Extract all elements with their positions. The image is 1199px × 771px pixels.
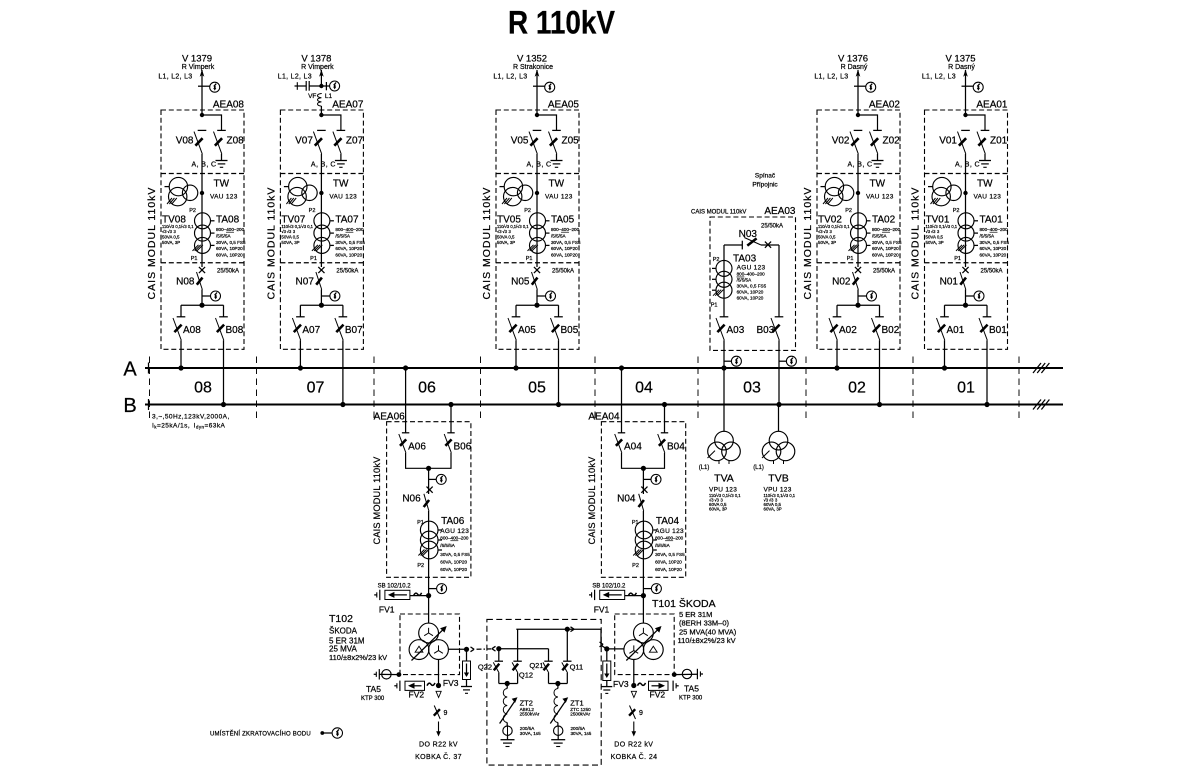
wire Z05 to ground <box>556 154 558 160</box>
wire Q22 to ZT2 bar <box>498 673 500 684</box>
svg-text:N06: N06 <box>402 494 421 505</box>
bus disconnector B03 <box>775 316 784 318</box>
svg-text:30VA, 0,5 FS5: 30VA, 0,5 FS5 <box>440 552 470 557</box>
svg-text:R Vimperk: R Vimperk <box>182 64 215 71</box>
svg-text:N07: N07 <box>296 277 315 288</box>
svg-text:T102: T102 <box>329 613 353 625</box>
short-circuit point tick bay 02 <box>854 85 866 87</box>
bus disconnector B04 <box>661 432 668 434</box>
transformer module AEA06 enclosure <box>387 422 471 578</box>
bus disconnector A08 <box>177 316 186 318</box>
wire branch to Z02 <box>858 115 878 130</box>
power transformer T101 <box>634 623 654 643</box>
svg-text:VAU 123: VAU 123 <box>545 194 573 201</box>
wire bus B to B04 <box>664 405 666 433</box>
svg-text:SB 102/10.2: SB 102/10.2 <box>378 584 412 590</box>
wire ZT1 bar <box>549 683 568 685</box>
svg-text:P2: P2 <box>524 208 531 214</box>
plug arrow T102 neutral <box>471 647 475 649</box>
short-circuit point tick bay 01 <box>962 85 974 87</box>
svg-text:50VA, 3P: 50VA, 3P <box>818 240 836 245</box>
svg-text:√3 √3 3: √3 √3 3 <box>497 229 512 234</box>
svg-text:VF: VF <box>308 93 316 100</box>
node FV1 junction bay 04 <box>641 593 646 598</box>
node VT tap bay 07 <box>319 191 323 195</box>
disconnector N02 <box>853 272 859 290</box>
arc suppression cabinet enclosure <box>487 619 601 765</box>
wire FV1 to riser bay 04 <box>625 595 644 597</box>
svg-text:L1, L2, L3: L1, L2, L3 <box>814 74 848 81</box>
svg-text:25 MVA: 25 MVA <box>329 644 358 653</box>
svg-text:B: B <box>123 395 136 417</box>
node A02 on bus A <box>834 365 839 370</box>
svg-text:R Dasný: R Dasný <box>841 64 868 71</box>
node T101 neutral <box>604 646 609 651</box>
node VT tap bay 08 <box>200 191 204 195</box>
node B02 on bus B <box>877 402 882 407</box>
module section separator bay 05 upper <box>496 173 579 175</box>
svg-text:60VA, 10P20: 60VA, 10P20 <box>216 246 243 251</box>
wire Q21 stub <box>548 649 550 662</box>
wire N01 to node bay 01 <box>965 290 967 306</box>
svg-text:A05: A05 <box>518 325 536 336</box>
node B03 on bus B <box>776 402 781 407</box>
disconnector N01 <box>960 272 966 290</box>
node bus selection bay 02 <box>855 303 860 308</box>
svg-text:TW: TW <box>333 179 349 190</box>
short-circuit point tick B03 <box>779 360 787 362</box>
node top junction bay 08 <box>200 113 204 117</box>
module section separator bay 05 lower <box>496 262 579 264</box>
svg-text:TVB: TVB <box>768 473 788 485</box>
svg-text:Z01: Z01 <box>990 136 1008 147</box>
short-circuit point symbol bay 02 <box>866 82 876 92</box>
voltage transformer TVA <box>715 431 734 450</box>
wire bus selection bar bay 02 <box>837 304 880 306</box>
wire A05 to bus A <box>515 340 517 368</box>
svg-text:V01: V01 <box>939 136 957 147</box>
short-circuit point tick lower bay 08 <box>202 295 211 297</box>
VF line terminal <box>296 82 298 90</box>
svg-text:25/50kA: 25/50kA <box>761 224 783 230</box>
svg-text:KTP 300: KTP 300 <box>361 696 385 702</box>
legend wire <box>322 732 332 734</box>
svg-text:B07: B07 <box>345 325 363 336</box>
TA5 capacitive terminal T102 <box>378 669 380 679</box>
svg-text:R 110kV: R 110kV <box>508 5 615 41</box>
svg-text:A08: A08 <box>183 325 201 336</box>
svg-text:FV3: FV3 <box>613 679 629 689</box>
svg-text:2500kVAr: 2500kVAr <box>570 711 590 716</box>
svg-text:A: A <box>123 359 137 381</box>
bus disconnector B02 <box>875 316 884 318</box>
svg-text:Z07: Z07 <box>346 136 364 147</box>
svg-text:TA5: TA5 <box>366 684 381 694</box>
short-circuit rating point bay 02 <box>855 267 861 273</box>
wire ZT neutral bus mid <box>499 648 549 650</box>
svg-text:DO R22 kV: DO R22 kV <box>614 742 653 749</box>
wire feeder bay 02 <box>857 70 859 115</box>
wire A08 to bus A <box>180 340 182 368</box>
node bus selection bay 08 <box>199 303 204 308</box>
svg-text:Z08: Z08 <box>227 136 245 147</box>
svg-text:TA07: TA07 <box>335 215 359 226</box>
svg-text:9: 9 <box>444 710 448 717</box>
short-circuit point symbol lower bay 05 <box>546 291 556 301</box>
svg-text:(L1): (L1) <box>753 465 764 471</box>
svg-text:ŠKODA: ŠKODA <box>329 627 358 636</box>
disconnector V08 <box>198 129 207 131</box>
svg-text:50VA 0,5: 50VA 0,5 <box>281 235 299 240</box>
svg-text:L1, L2, L3: L1, L2, L3 <box>922 74 956 81</box>
wire to A07 <box>299 305 301 317</box>
node B07 on bus B <box>340 402 345 407</box>
svg-text:60VA, 10P20: 60VA, 10P20 <box>335 246 362 251</box>
disconnector V07 <box>317 129 326 131</box>
svg-text:Q11: Q11 <box>570 662 584 671</box>
svg-text:60VA, 10P20: 60VA, 10P20 <box>872 246 899 251</box>
svg-text:P1: P1 <box>310 256 317 262</box>
transformer module AEA04 enclosure <box>601 422 685 578</box>
svg-text:B02: B02 <box>882 325 900 336</box>
svg-text:R Strakonice: R Strakonice <box>513 64 553 71</box>
svg-text:FV2: FV2 <box>409 690 425 700</box>
switch Q22 <box>495 660 503 662</box>
wire coupler right <box>761 244 779 246</box>
short-circuit point symbol FV level bay 04 <box>651 584 661 594</box>
wire main V08 to N08 <box>201 154 203 267</box>
svg-text:KTP 300: KTP 300 <box>679 695 703 701</box>
short-circuit point tick bay 08 <box>198 85 210 87</box>
svg-text:VAU 123: VAU 123 <box>974 194 1002 201</box>
feeder arrow bay 07 <box>319 70 324 77</box>
svg-text:60VA, 10P20: 60VA, 10P20 <box>551 246 578 251</box>
svg-text:TW: TW <box>870 179 886 190</box>
svg-text:800–400–200: 800–400–200 <box>737 272 766 277</box>
wire junction to N06 <box>428 468 430 494</box>
wire B08 to bus B <box>223 340 225 404</box>
wire B06 to junction <box>429 453 451 469</box>
wire Q12 stub <box>517 629 519 661</box>
cable head T101 <box>631 691 636 697</box>
switch Q11 <box>563 660 571 662</box>
line trap coil L1 <box>318 94 322 107</box>
short-circuit point tick bay 06 <box>429 478 436 480</box>
wire bus selection bar bay 01 <box>945 304 988 306</box>
svg-text:04: 04 <box>635 380 653 397</box>
feeder arrow bay 02 <box>856 70 861 77</box>
neutral CT ZT2 <box>503 726 512 735</box>
node top junction bay 07 <box>319 113 323 117</box>
svg-text:CAIS MODUL 110kV: CAIS MODUL 110kV <box>372 456 382 545</box>
feeder arrow bay 08 <box>200 70 205 77</box>
wire feeder bay 01 <box>965 70 967 115</box>
wire main V05 to N05 <box>536 154 538 267</box>
svg-text:A06: A06 <box>408 442 426 453</box>
node ZT mid <box>496 646 501 651</box>
wire ZT2 bar <box>499 683 518 685</box>
svg-text:800–400–200: 800–400–200 <box>872 227 901 232</box>
svg-text:60VA, 10P20: 60VA, 10P20 <box>335 252 362 257</box>
disconnector 9 T102 <box>434 706 440 720</box>
node junction bay 06 <box>426 466 431 471</box>
short-circuit point tick A03 <box>724 360 732 362</box>
svg-text:A, B, C: A, B, C <box>848 162 873 169</box>
svg-text:B06: B06 <box>454 442 472 453</box>
svg-text:SB 102/10.2: SB 102/10.2 <box>592 584 626 590</box>
wire bus A to A06 <box>405 368 407 433</box>
current transformer TA07 <box>314 213 330 229</box>
node T101 LV <box>631 683 636 688</box>
wire B02 to bus B <box>879 340 881 404</box>
svg-text:A01: A01 <box>947 325 965 336</box>
node A01 on bus A <box>942 365 947 370</box>
wire ZT neutral bus top <box>516 628 601 630</box>
disconnector N05 <box>532 272 538 290</box>
node B01 on bus B <box>984 402 989 407</box>
wire to B02 <box>879 305 881 317</box>
svg-text:Z05: Z05 <box>562 136 580 147</box>
surge arrester FV2 T102 <box>405 681 425 690</box>
svg-text:/5/5/5A: /5/5/5A <box>551 234 566 239</box>
svg-text:AGU 123: AGU 123 <box>440 528 469 535</box>
svg-text:800–400–200: 800–400–200 <box>335 227 364 232</box>
svg-text:L1, L2, L3: L1, L2, L3 <box>158 74 192 81</box>
svg-text:R Vimperk: R Vimperk <box>301 64 334 71</box>
svg-text:TW: TW <box>549 179 565 190</box>
voltage transformer TVB <box>769 431 788 450</box>
wire FV1 to riser bay 06 <box>410 595 429 597</box>
svg-text:60VA, 10P20: 60VA, 10P20 <box>440 567 467 572</box>
wire TA5 T102 <box>380 673 401 675</box>
switch Q21 <box>544 660 552 662</box>
short-circuit rating point bay 05 <box>534 267 540 273</box>
svg-text:V05: V05 <box>511 136 529 147</box>
svg-text:03: 03 <box>743 380 761 397</box>
ground Z05 <box>551 160 563 162</box>
module section separator bay 07 lower <box>280 262 363 264</box>
wire junction to N04 <box>642 468 644 494</box>
svg-text:N08: N08 <box>176 277 195 288</box>
bus disconnector A04 <box>618 432 625 434</box>
ground Z01 <box>979 160 991 162</box>
short-circuit point symbol A03 <box>731 356 741 366</box>
node FV1 junction bay 06 <box>426 593 431 598</box>
wire riser A03 side <box>723 245 725 317</box>
node A06 on bus A <box>403 365 408 370</box>
TA5 capacitive terminal T101 <box>696 669 698 679</box>
bus disconnector B07 <box>339 316 348 318</box>
svg-text:CAIS MODUL 110kV: CAIS MODUL 110kV <box>691 209 746 215</box>
neutral CT ZT1 <box>554 726 563 735</box>
short-circuit point tick bay 04 <box>643 478 650 480</box>
bus disconnector A03 <box>720 316 729 318</box>
short-circuit rating point bay 03 <box>765 242 771 248</box>
wire branch to Z01 <box>966 115 986 130</box>
FV1 capacitive terminal bay 04 <box>594 590 596 600</box>
svg-text:800–400–200: 800–400–200 <box>440 536 469 541</box>
surge arrester FV1 bay 04 <box>600 590 625 599</box>
wire VF branch bay 07 <box>309 85 321 87</box>
node A08 on bus A <box>178 365 183 370</box>
svg-text:V07: V07 <box>295 136 313 147</box>
svg-text:P2: P2 <box>417 563 424 569</box>
svg-text:/5/5/5A: /5/5/5A <box>980 234 995 239</box>
svg-text:Přípojnic: Přípojnic <box>752 182 778 189</box>
svg-text:A, B, C: A, B, C <box>311 162 336 169</box>
wire main V01 to N01 <box>965 154 967 267</box>
svg-text:P1: P1 <box>526 256 533 262</box>
short-circuit point symbol bay 08 <box>210 82 220 92</box>
disconnector V05 <box>533 129 542 131</box>
node top junction bay 02 <box>856 113 860 117</box>
arc suppression coil ZT1 <box>554 689 558 723</box>
svg-text:/5/5/5A: /5/5/5A <box>216 234 231 239</box>
wire module to transformer bay 04 <box>642 577 644 623</box>
module section separator bay 07 upper <box>280 173 363 175</box>
wire to A05 <box>515 305 517 317</box>
bus disconnector B08 <box>219 316 228 318</box>
wire branch to Z05 <box>537 115 557 130</box>
svg-text:800–400–200: 800–400–200 <box>551 227 580 232</box>
svg-text:/5/5/5A: /5/5/5A <box>335 234 350 239</box>
wire TA5 T101 <box>674 673 697 675</box>
svg-text:/5/5/5A: /5/5/5A <box>440 543 455 548</box>
svg-text:50VA 0,5: 50VA 0,5 <box>926 235 944 240</box>
wire ZT2 to CT <box>506 723 508 727</box>
node ZT2 <box>505 681 510 686</box>
svg-text:√3 √3 3: √3 √3 3 <box>281 229 296 234</box>
svg-text:AEA04: AEA04 <box>588 412 620 423</box>
svg-text:√3 √3 3: √3 √3 3 <box>818 229 833 234</box>
wire Q12 to ZT2 bar <box>517 673 519 684</box>
wire VF branch left <box>297 85 306 87</box>
svg-text:30VA, 0,5 FS5: 30VA, 0,5 FS5 <box>737 284 767 289</box>
wire to B07 <box>342 305 344 317</box>
svg-text:CAIS MODUL 110kV: CAIS MODUL 110kV <box>802 187 814 300</box>
svg-text:R Dasný: R Dasný <box>948 64 975 71</box>
svg-text:AEA05: AEA05 <box>548 100 580 111</box>
short-circuit point tick lower bay 02 <box>858 295 867 297</box>
svg-text:FV1: FV1 <box>594 605 610 615</box>
svg-text:50VA 0,5: 50VA 0,5 <box>162 235 180 240</box>
node TA5 T102 <box>397 672 402 677</box>
wire bus B to B06 <box>450 405 452 433</box>
wire coil to module bay 07 <box>320 106 322 115</box>
short-circuit point tick lower bay 01 <box>966 295 975 297</box>
wire module to transformer bay 06 <box>428 577 430 623</box>
svg-text:TA02: TA02 <box>872 215 896 226</box>
flexible link FV1 bay 06 <box>414 593 422 596</box>
svg-text:800–400–200: 800–400–200 <box>216 227 245 232</box>
voltage transformer TV01 (TW VAU 123) <box>933 177 951 195</box>
wire B04 to junction <box>643 453 664 469</box>
svg-text:Q12: Q12 <box>519 671 533 680</box>
bus disconnector A07 <box>296 316 305 318</box>
earthing switch Z01 <box>981 129 990 131</box>
svg-text:02: 02 <box>848 380 866 397</box>
coupler module AEA03 enclosure <box>710 217 796 350</box>
svg-text:60VA, 10P20: 60VA, 10P20 <box>216 252 243 257</box>
short-circuit point symbol bay 06 <box>436 474 446 484</box>
disconnector V01 <box>961 129 970 131</box>
svg-text:50VA, 3P: 50VA, 3P <box>281 240 299 245</box>
module section separator bay 02 lower <box>817 262 900 264</box>
FV1 capacitive terminal bay 06 <box>379 590 381 600</box>
svg-text:VAU 123: VAU 123 <box>210 194 238 201</box>
svg-text:P1: P1 <box>191 256 198 262</box>
wire bus to TVA <box>723 368 725 431</box>
svg-text:T101 ŠKODA: T101 ŠKODA <box>652 597 716 610</box>
wire B03 to bus B <box>778 340 780 404</box>
CAIS module AEA07 enclosure <box>280 110 363 349</box>
current transformer TA04 <box>635 521 653 539</box>
node A07 on bus A <box>298 365 303 370</box>
wire to B05 <box>558 305 560 317</box>
wire to B01 <box>986 305 988 317</box>
svg-text:TA04: TA04 <box>656 516 680 527</box>
svg-text:06: 06 <box>418 380 436 397</box>
svg-text:30VA, 0,5 FS5: 30VA, 0,5 FS5 <box>551 240 581 245</box>
wire main V07 to N07 <box>320 154 322 267</box>
busbar B end hatch <box>1033 400 1041 410</box>
plug arrow ZT top <box>571 627 575 629</box>
flexible link FV1 bay 04 <box>628 593 636 596</box>
svg-text:25/50kA: 25/50kA <box>336 269 358 275</box>
svg-text:N05: N05 <box>511 277 530 288</box>
legend node <box>320 731 324 735</box>
svg-text:B08: B08 <box>226 325 244 336</box>
node top junction bay 01 <box>963 113 967 117</box>
busbar A <box>145 367 1063 369</box>
svg-text:KOBKA Č. 37: KOBKA Č. 37 <box>415 752 462 761</box>
voltage transformer TV05 (TW VAU 123) <box>504 177 522 195</box>
bus disconnector B01 <box>983 316 992 318</box>
svg-text:05: 05 <box>528 380 546 397</box>
svg-text:CAIS MODUL 110kV: CAIS MODUL 110kV <box>146 187 158 300</box>
svg-text:60VA, 10P20: 60VA, 10P20 <box>980 246 1007 251</box>
svg-text:AEA01: AEA01 <box>976 100 1008 111</box>
node A05 on bus A <box>513 365 518 370</box>
wire Q21 to ZT1 bar <box>548 673 550 684</box>
transformer T101 enclosure <box>615 614 675 675</box>
disconnector 9 T101 <box>630 706 636 720</box>
svg-text:A, B, C: A, B, C <box>192 162 217 169</box>
svg-text:V08: V08 <box>176 136 194 147</box>
svg-text:√3 √3 3: √3 √3 3 <box>926 229 941 234</box>
wire FV3 to ground T101 <box>606 681 608 687</box>
busbar A end hatch <box>1033 363 1041 373</box>
flexible link FV2 T102 <box>427 683 435 686</box>
CAIS module AEA01 enclosure <box>925 110 1008 349</box>
svg-text:L1, L2, L3: L1, L2, L3 <box>278 74 312 81</box>
bus disconnector A05 <box>512 316 521 318</box>
wire ZT box to T101 <box>600 629 602 645</box>
short-circuit point symbol bay 07 <box>330 81 340 91</box>
earthing switch Z02 <box>873 129 882 131</box>
wire to short-circuit point bay 07 <box>321 85 329 87</box>
coupling capacitor VF <box>305 81 307 91</box>
neutral CT TA5 T102 <box>382 670 391 679</box>
svg-text:50VA, 3P: 50VA, 3P <box>497 240 515 245</box>
voltage transformer TV08 (TW VAU 123) <box>169 177 187 195</box>
svg-text:110/±8x2%/23 kV: 110/±8x2%/23 kV <box>678 636 736 645</box>
svg-text:30VA, 1s5: 30VA, 1s5 <box>520 731 541 736</box>
svg-text:AEA03: AEA03 <box>764 206 796 217</box>
svg-text:Ik=25kA/1s, Idyn=63kA: Ik=25kA/1s, Idyn=63kA <box>152 423 226 430</box>
short-circuit point tick FV level bay 06 <box>429 588 437 590</box>
circuit breaker N03 <box>741 241 743 250</box>
